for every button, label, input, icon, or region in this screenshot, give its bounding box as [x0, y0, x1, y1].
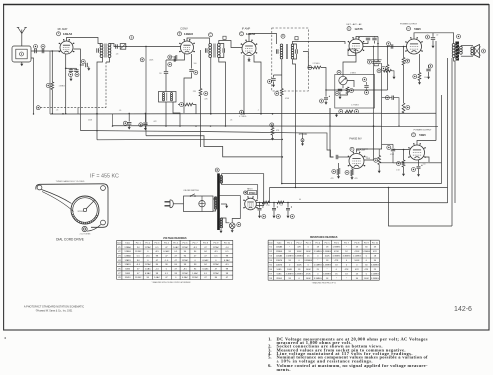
wires volume internals	[342, 85, 344, 89]
resistor R16 filter	[262, 201, 269, 204]
wire V1 cathode to bus	[65, 68, 67, 114]
capacitor C14	[296, 49, 298, 53]
ground R15	[418, 81, 421, 85]
AC plug	[165, 200, 174, 208]
capacitor C5 screen	[86, 63, 88, 67]
ground R13	[337, 175, 340, 179]
svg-text:DET - AVC - AF: DET - AVC - AF	[346, 23, 362, 26]
svg-text:Pin 5: Pin 5	[173, 242, 179, 244]
svg-text:Pin 1: Pin 1	[136, 242, 142, 244]
resistor R11 bus	[180, 103, 184, 107]
capacitor C35 bus	[139, 123, 143, 127]
ground C26	[432, 44, 435, 48]
wire riser x373 node	[373, 126, 375, 128]
svg-text:47K: 47K	[334, 260, 338, 262]
svg-text:6.3AC: 6.3AC	[203, 259, 209, 262]
ground R18	[393, 75, 396, 79]
speaker frame	[461, 44, 473, 46]
resistor R7 plate load	[402, 58, 405, 66]
svg-text:12BA6: 12BA6	[276, 255, 283, 258]
wire rail3 bottom	[389, 188, 453, 227]
wire V7 screen	[425, 157, 430, 162]
wire osc grid down	[165, 60, 167, 71]
wire bus B3 AC line	[146, 136, 282, 157]
resistor R10	[271, 128, 274, 136]
interference capacitor	[199, 196, 205, 212]
wire V2 cathode long	[200, 50, 202, 89]
capacitor C15	[271, 79, 275, 81]
wire riser r4 node	[281, 183, 283, 185]
svg-text:3.3MEG: 3.3MEG	[332, 256, 340, 258]
svg-text:POWER OUTPUT: POWER OUTPUT	[400, 23, 418, 25]
svg-text:3.3MEG: 3.3MEG	[371, 278, 379, 280]
wire loop return lead	[31, 58, 34, 114]
ground C16	[325, 101, 328, 105]
capacitor C4	[74, 70, 78, 72]
wire V7 grid	[382, 143, 393, 145]
ground volume	[339, 95, 342, 99]
resistor R5	[313, 66, 321, 69]
capacitor C18	[372, 38, 376, 40]
wire y162 run	[380, 162, 429, 164]
svg-text:150: 150	[424, 77, 427, 79]
svg-text:.02: .02	[436, 35, 439, 37]
svg-text:C: C	[210, 34, 212, 37]
wire R5 to filter	[321, 68, 326, 97]
registration dot	[4, 337, 6, 339]
svg-text:100K: 100K	[325, 256, 331, 258]
svg-text:50B5: 50B5	[419, 133, 426, 137]
capacitor C26	[431, 38, 435, 40]
svg-text:.05: .05	[56, 110, 59, 112]
svg-text:3.3MEG: 3.3MEG	[323, 273, 331, 275]
ref B1 right	[240, 110, 244, 114]
capacitor C19 coupling	[391, 44, 393, 48]
ground pilot	[231, 228, 234, 232]
svg-text:12AT6: 12AT6	[276, 259, 283, 262]
ground phono	[301, 142, 304, 146]
resistor R14	[402, 160, 405, 167]
resistor R2 osc	[174, 56, 177, 62]
capacitor C13	[276, 49, 278, 53]
wire V4 right rail	[377, 37, 379, 63]
svg-text:117AC: 117AC	[213, 246, 220, 249]
wire T1 primary bottom	[97, 58, 103, 140]
svg-text:Volume control at maximum, no: Volume control at maximum, no signal app…	[277, 363, 429, 368]
svg-text:150: 150	[423, 164, 426, 166]
resistor R18 560K	[377, 69, 381, 73]
svg-text:*: *	[327, 269, 328, 271]
svg-text:12AT6: 12AT6	[125, 259, 132, 262]
volume potentiometer	[339, 76, 347, 84]
svg-text:RESISTANCE READINGS: RESISTANCE READINGS	[310, 236, 338, 239]
IF transformer T2	[209, 44, 220, 58]
capacitor C32	[376, 62, 380, 64]
resistor R17 filter	[277, 201, 284, 204]
capacitor C1	[34, 45, 38, 49]
dashed shield box T3	[272, 28, 309, 91]
svg-text:35W4: 35W4	[276, 278, 282, 280]
ground C25	[417, 173, 420, 177]
svg-text:100K: 100K	[306, 251, 312, 253]
capacitor C9 osc grid	[164, 72, 168, 74]
capacitor C23	[391, 149, 395, 151]
capacitor C2	[41, 45, 45, 49]
wire loop to V1 grid	[31, 50, 61, 52]
boxed ref T2	[223, 36, 226, 39]
wire R4 down	[281, 96, 283, 184]
svg-text:100K: 100K	[364, 278, 370, 280]
svg-text:100K: 100K	[297, 265, 303, 267]
svg-text:6.3AC: 6.3AC	[203, 268, 209, 271]
wire V1 plate to T1	[67, 38, 102, 44]
ground below volume	[335, 113, 338, 117]
wire C31 tie	[367, 59, 382, 61]
node bus junctions	[62, 113, 64, 115]
capacitor C21 bus	[123, 121, 127, 125]
wire bus B2	[113, 125, 439, 128]
svg-text:117AC: 117AC	[182, 272, 189, 275]
svg-text:470K: 470K	[354, 251, 360, 253]
capacitor C34 in volume box	[364, 86, 368, 88]
svg-text:117AC: 117AC	[213, 263, 220, 266]
ref speaker	[482, 49, 486, 53]
svg-text:*: *	[289, 247, 290, 249]
ground C5	[87, 67, 90, 71]
svg-text:3.3MEG: 3.3MEG	[371, 265, 379, 267]
wire y187 run	[270, 187, 448, 189]
capacitor C11	[205, 48, 207, 52]
svg-text:1.5MEG: 1.5MEG	[332, 247, 340, 249]
wire right rail 2	[447, 58, 449, 203]
svg-text:6.3AC: 6.3AC	[163, 250, 169, 253]
svg-text:117AC: 117AC	[135, 250, 142, 253]
ground C27	[427, 75, 430, 79]
volume control box	[335, 74, 375, 108]
wire riser x330	[329, 108, 331, 126]
svg-text:117AC: 117AC	[213, 272, 220, 275]
svg-text:Item: Item	[117, 241, 121, 244]
capacitor C24 grid resistor ref	[374, 158, 378, 162]
svg-text:117AC: 117AC	[135, 276, 142, 279]
capacitor C20	[338, 89, 342, 91]
ground C21	[128, 125, 131, 129]
wire AVC feed to B3	[145, 47, 147, 136]
T5 filament winding	[220, 218, 223, 228]
refs below volume box	[339, 110, 343, 114]
svg-text:C: C	[241, 33, 243, 36]
ground R14	[402, 172, 405, 176]
pilot lamp	[229, 223, 235, 229]
svg-text:6.3AC: 6.3AC	[182, 276, 188, 279]
resistor R8	[346, 87, 349, 94]
OPT secondary winding	[460, 46, 463, 54]
capacitor C12	[223, 48, 225, 52]
capacitor C27	[426, 69, 430, 71]
wire T2 primary bottom	[210, 58, 212, 115]
capacitor C6 padder	[97, 48, 99, 52]
svg-text:35W4: 35W4	[125, 277, 131, 279]
idler pulley	[82, 226, 87, 231]
svg-text:117AC: 117AC	[145, 246, 152, 249]
wire C8 to V2 grid	[126, 46, 181, 48]
svg-text:1.0AC: 1.0AC	[173, 246, 179, 249]
speaker SP1	[474, 45, 481, 58]
svg-text:1 MEG: 1 MEG	[59, 86, 66, 88]
svg-text:50B5: 50B5	[277, 273, 283, 275]
ref T5	[215, 168, 219, 172]
svg-text:Pin 10: Pin 10	[372, 242, 379, 244]
capacitor C2 body	[42, 49, 44, 53]
svg-text:1.5MEG: 1.5MEG	[323, 251, 331, 253]
T5 secondary winding	[220, 176, 223, 184]
wire plug to box	[173, 203, 183, 205]
wire riser x112	[112, 114, 114, 126]
svg-text:IF = 455 KC: IF = 455 KC	[90, 174, 119, 180]
svg-text:.005: .005	[364, 157, 368, 159]
wire V6 plate run	[364, 144, 382, 149]
ground V3	[248, 58, 251, 62]
wire filter riser	[269, 188, 271, 203]
svg-text:3.3MEG: 3.3MEG	[304, 260, 312, 262]
svg-text:50B5: 50B5	[277, 269, 283, 271]
svg-text:CONV: CONV	[180, 27, 188, 31]
ground R19	[378, 169, 381, 173]
svg-text:POWER OUTPUT: POWER OUTPUT	[414, 130, 433, 132]
node rail	[377, 43, 379, 45]
wire screen feed	[303, 52, 313, 68]
svg-text:50B5: 50B5	[125, 269, 131, 271]
ground C3	[70, 77, 73, 81]
svg-text:47K: 47K	[373, 251, 377, 253]
wire V1 screen drop	[74, 49, 85, 65]
wire T3 links	[293, 44, 297, 49]
ground C35	[144, 126, 147, 130]
ref volume b	[365, 91, 369, 95]
V7 cathode electrolytic C25	[417, 165, 423, 169]
svg-text:Pin 10: Pin 10	[224, 242, 231, 244]
svg-text:100: 100	[248, 61, 251, 63]
output transformer T4	[457, 35, 461, 39]
svg-text:DIAL CORD DRIVE: DIAL CORD DRIVE	[56, 238, 84, 242]
electrolytic C30	[287, 203, 289, 208]
svg-text:A PHOTOFACT STANDARD NOTATION: A PHOTOFACT STANDARD NOTATION SCHEMATIC	[24, 305, 84, 308]
svg-text:142-6: 142-6	[454, 306, 472, 313]
svg-text:Pin 2: Pin 2	[145, 242, 151, 244]
svg-text:1.0AC: 1.0AC	[145, 268, 151, 271]
svg-text:RF AMP: RF AMP	[58, 27, 68, 31]
svg-text:3.3MEG: 3.3MEG	[286, 273, 294, 275]
svg-text:50B5: 50B5	[125, 273, 131, 275]
svg-text:1.5MEG: 1.5MEG	[362, 251, 370, 253]
T5 primary winding	[214, 197, 216, 209]
svg-text:PHONO: PHONO	[299, 134, 308, 136]
AF rail x381	[381, 63, 383, 144]
svg-text:117AC: 117AC	[182, 246, 189, 249]
svg-text:47K: 47K	[345, 269, 349, 271]
wire C10	[191, 54, 193, 69]
svg-text:47K: 47K	[355, 269, 359, 271]
wire C12 link	[219, 44, 224, 49]
ground R10	[271, 136, 274, 140]
wire V5 cathode	[419, 54, 421, 73]
wire riser x78	[77, 108, 79, 114]
svg-text:1.5MEG: 1.5MEG	[353, 256, 361, 258]
svg-text:12BA6: 12BA6	[63, 32, 73, 36]
resistor R13	[337, 169, 340, 175]
svg-text:100K: 100K	[297, 251, 303, 253]
wire V4 top caps	[356, 37, 378, 40]
wire left riser b1	[49, 51, 51, 114]
capacitor C7	[116, 44, 118, 48]
wire rect cathode B+	[256, 202, 300, 204]
T5 center tap ground	[221, 203, 227, 205]
svg-text:.05: .05	[119, 110, 122, 112]
dial cord run	[42, 190, 72, 204]
svg-text:ments.: ments.	[277, 367, 291, 372]
svg-text:470: 470	[331, 178, 334, 180]
wire T5 secondary to rectifier	[222, 174, 264, 206]
svg-text:Pin 6: Pin 6	[334, 242, 340, 244]
svg-text:12BA6: 12BA6	[246, 32, 256, 36]
svg-text:*: *	[317, 260, 318, 262]
ref T3	[281, 34, 285, 38]
svg-text:12AT6: 12AT6	[276, 264, 283, 267]
wire right rail 1	[441, 95, 443, 184]
bus junction dots	[112, 125, 113, 126]
wire T2 secondary top to V3	[219, 41, 242, 48]
wire V5 plate to OPT	[414, 33, 454, 44]
svg-text:12AT6: 12AT6	[354, 27, 363, 31]
svg-text:117AC: 117AC	[145, 263, 152, 266]
svg-text:12BE6: 12BE6	[124, 251, 131, 253]
wire C23 branch	[392, 144, 394, 148]
svg-text:.05: .05	[230, 120, 233, 122]
wire T1 secondary top to V2	[110, 44, 128, 47]
wire T1 sec bottom AVC	[106, 58, 110, 63]
svg-text:3.3MEG: 3.3MEG	[314, 278, 322, 280]
svg-text:12BA6: 12BA6	[276, 246, 283, 249]
ground filament	[220, 229, 223, 233]
capacitor C31	[368, 60, 372, 64]
svg-text:Pin 7: Pin 7	[344, 242, 350, 244]
speaker voice coil	[471, 47, 474, 55]
svg-text:4.7 MEG: 4.7 MEG	[351, 104, 359, 106]
svg-text:.1: .1	[257, 110, 259, 112]
svg-text:IF AMP: IF AMP	[242, 27, 251, 31]
svg-text:1.: 1.	[268, 336, 271, 341]
ground under loop	[20, 62, 23, 66]
svg-text:470K: 470K	[306, 273, 312, 275]
svg-text:Pin 5: Pin 5	[325, 242, 331, 244]
wire osc coil to bus	[165, 102, 167, 126]
resistor R3	[199, 89, 202, 97]
wire V1 cathode drop	[65, 54, 67, 68]
svg-text:Pin 1: Pin 1	[287, 242, 293, 244]
resistor R9	[345, 110, 353, 113]
svg-text:117AC: 117AC	[182, 259, 189, 262]
resistor R15	[418, 73, 421, 81]
ref phono	[270, 123, 274, 127]
wire C3 stub	[70, 68, 72, 70]
capacitor C1 body	[35, 49, 37, 53]
wire osc coil tap	[173, 102, 180, 126]
svg-text:D: D	[282, 35, 284, 38]
V6 cathode resistor R12	[351, 170, 354, 176]
wire T2 secondary bottom	[219, 58, 226, 126]
wire T3 primary bottom	[281, 60, 283, 89]
power transformer T5 core	[217, 173, 220, 230]
svg-text:1.5MEG: 1.5MEG	[314, 251, 322, 253]
wire antenna lead	[21, 34, 23, 47]
svg-text:2 1/2 TURNS: 2 1/2 TURNS	[80, 234, 91, 236]
wire V5 screen rail	[435, 41, 437, 141]
resistor R6 grid	[386, 65, 389, 73]
wire OPT primary bottom	[454, 58, 455, 204]
IF transformer T3	[280, 44, 294, 59]
switch S1 contacts	[190, 194, 196, 197]
electrolytic C28	[259, 203, 261, 208]
svg-text:100: 100	[194, 63, 197, 65]
svg-text:G: G	[413, 134, 415, 137]
svg-text:40: 40	[299, 199, 301, 201]
svg-text:5.: 5.	[268, 355, 271, 360]
wire V6 grid	[330, 108, 334, 157]
svg-text:Pin 2: Pin 2	[297, 242, 303, 244]
wire C15	[273, 75, 275, 78]
dial drum	[71, 196, 99, 224]
capacitor C33	[385, 96, 389, 100]
wire V3 plate to T3	[249, 34, 277, 45]
wire pilot feed	[220, 196, 241, 223]
loop antenna L1	[12, 46, 31, 62]
wire filament leads	[221, 218, 229, 223]
svg-text:Pin 4: Pin 4	[315, 242, 321, 244]
svg-text:3.3MEG: 3.3MEG	[295, 256, 303, 258]
svg-text:12BA6: 12BA6	[124, 246, 131, 249]
ref AVC feed	[140, 58, 144, 62]
trimmer capacitor C8	[120, 44, 126, 50]
ground C15	[272, 83, 275, 87]
notes list	[268, 336, 428, 372]
wire V2 plate to T2	[187, 38, 210, 44]
capacitor C10	[189, 70, 193, 72]
svg-text:470K: 470K	[334, 251, 340, 253]
svg-text:6.3AC: 6.3AC	[224, 259, 230, 262]
svg-text:12BE6: 12BE6	[184, 32, 194, 36]
wire B+ long	[300, 202, 448, 204]
wire V4 takeoff rail	[373, 47, 375, 127]
wire y183 run	[282, 183, 442, 185]
electrolytic C29	[273, 203, 275, 208]
svg-text:ON-OFF SWITCH: ON-OFF SWITCH	[183, 190, 199, 192]
svg-text:H: H	[408, 28, 410, 31]
svg-text:3.3MEG: 3.3MEG	[343, 256, 351, 258]
wire AVC drop	[51, 51, 53, 82]
svg-text:12BA6: 12BA6	[124, 255, 131, 258]
IF transformer T1	[100, 44, 111, 58]
resistor R1	[51, 82, 54, 90]
svg-text:Pin 3: Pin 3	[154, 242, 160, 244]
antenna	[17, 28, 27, 34]
resistor R19	[378, 156, 381, 165]
svg-text:100K: 100K	[306, 278, 312, 280]
wire coupling to V5	[363, 46, 407, 48]
ref volume a	[363, 78, 367, 82]
diode load box	[348, 49, 356, 56]
boxed ref T3	[295, 37, 298, 40]
svg-text:100K: 100K	[306, 269, 312, 271]
